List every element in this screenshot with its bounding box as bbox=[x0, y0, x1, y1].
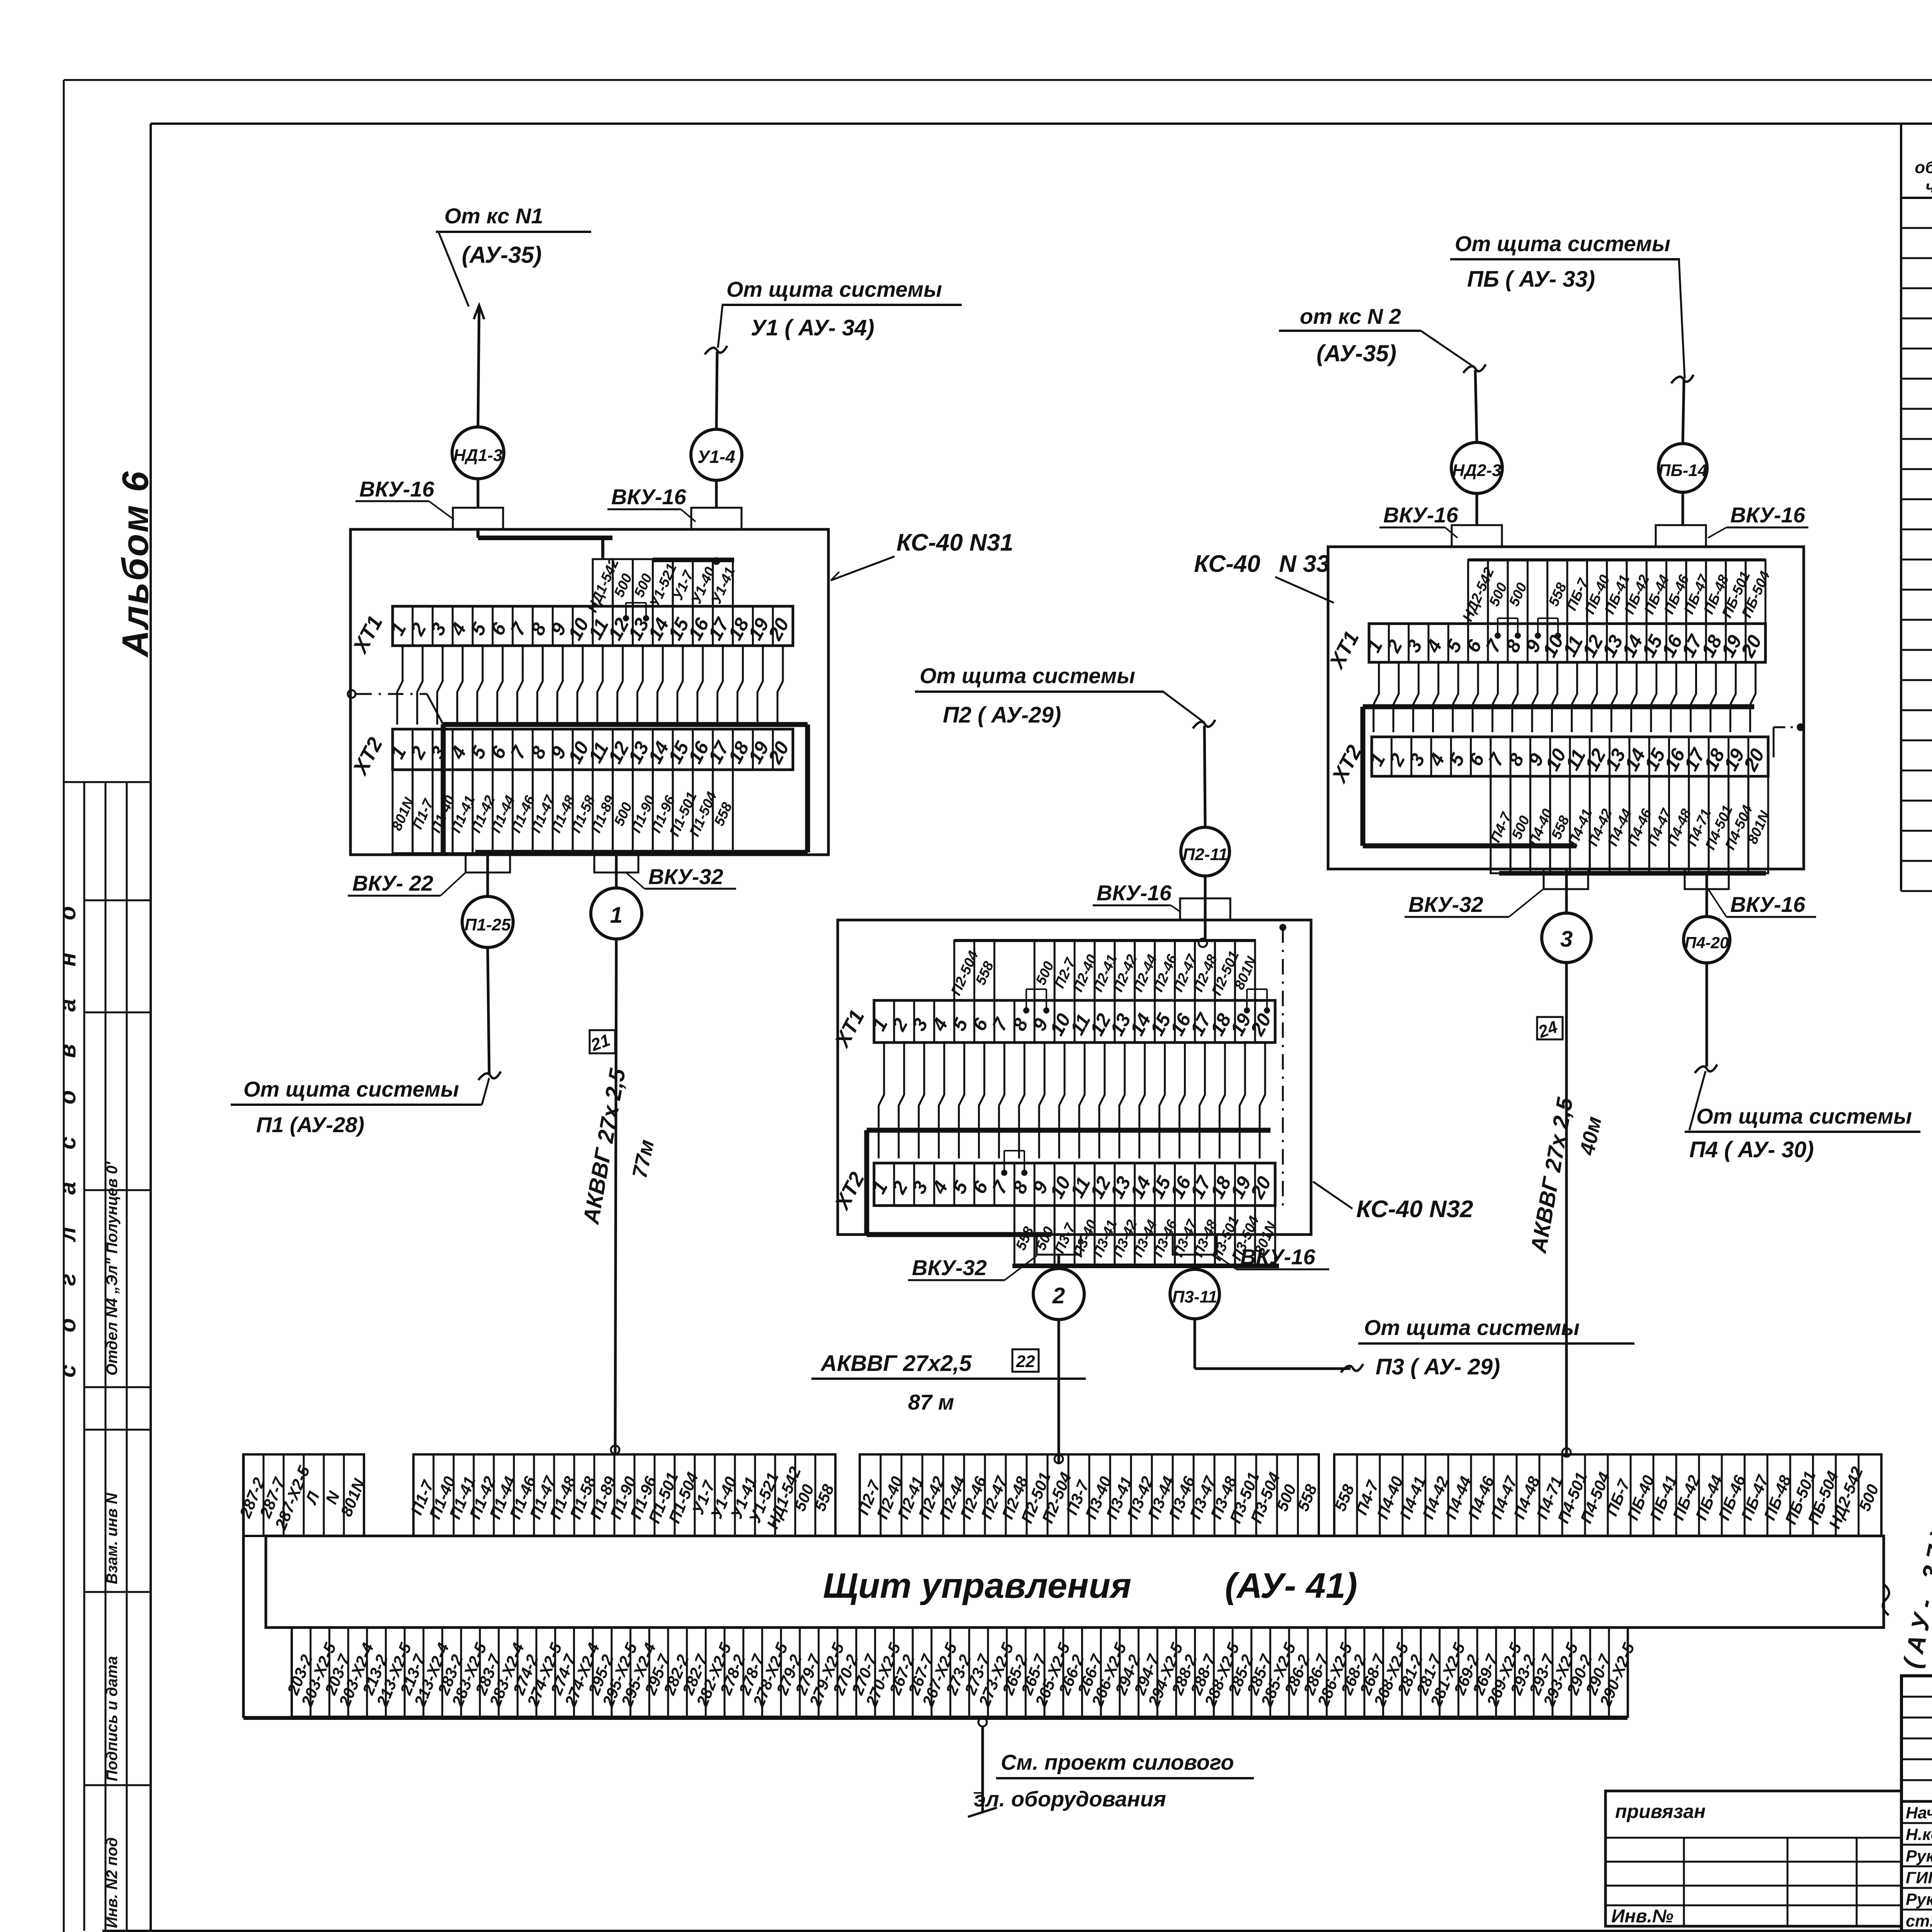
svg-text:Щит управления: Щит управления bbox=[823, 1566, 1131, 1605]
svg-text:ВКУ-16: ВКУ-16 bbox=[1730, 503, 1806, 527]
cable gland ВКУ-22 bottom N31 bbox=[466, 855, 510, 872]
svg-text:От щита системы: От щита системы bbox=[920, 663, 1135, 688]
bridge dots XT2 7-8 N32 bbox=[1001, 1170, 1007, 1176]
svg-text:КС-40 N31: КС-40 N31 bbox=[896, 529, 1014, 556]
svg-text:П4 ( АУ- 30): П4 ( АУ- 30) bbox=[1689, 1137, 1814, 1162]
sheet outer border bbox=[64, 79, 1932, 81]
svg-text:Отдел N4 „Эл" Полунцев 0ʹ: Отдел N4 „Эл" Полунцев 0ʹ bbox=[104, 1161, 121, 1376]
dash-dot stub right N32 bbox=[1279, 924, 1286, 931]
svg-text:эл. оборудования: эл. оборудования bbox=[974, 1787, 1166, 1811]
svg-text:Взам. инв N: Взам. инв N bbox=[104, 1493, 121, 1584]
svg-text:ВКУ-16: ВКУ-16 bbox=[1383, 503, 1459, 527]
terminal strip ХТ1 bbox=[874, 1000, 1275, 1043]
svg-text:(АУ-35): (АУ-35) bbox=[462, 242, 542, 268]
svg-text:НД2-3: НД2-3 bbox=[1452, 461, 1501, 480]
svg-text:ВКУ-16: ВКУ-16 bbox=[611, 485, 687, 509]
svg-text:От щита системы: От щита системы bbox=[243, 1077, 459, 1101]
svg-text:ПБ ( АУ- 33): ПБ ( АУ- 33) bbox=[1467, 267, 1595, 292]
svg-text:Рук.сек.: Рук.сек. bbox=[1906, 1847, 1932, 1866]
svg-text:П2 ( АУ-29): П2 ( АУ-29) bbox=[943, 702, 1061, 728]
svg-text:От щита системы: От щита системы bbox=[726, 277, 942, 301]
left title attachment table bbox=[1605, 1791, 1901, 1926]
bridge dots XT1 8-9 N32 bbox=[1023, 1007, 1029, 1014]
terminal strip ХТ2 bbox=[874, 1163, 1275, 1206]
band terminals lower row bbox=[292, 1628, 1628, 1717]
control panel cabinet outline bbox=[242, 1454, 245, 1718]
dash-dot stub right N33 bbox=[1774, 726, 1799, 728]
svg-text:Рук.гр.: Рук.гр. bbox=[1906, 1890, 1932, 1909]
wire labels above XT1 of N32 bbox=[954, 940, 975, 1000]
svg-text:АКВВГ 27х2,5: АКВВГ 27х2,5 bbox=[820, 1351, 972, 1376]
svg-text:КС-40: КС-40 bbox=[1194, 551, 1260, 577]
cable gland ВКУ-32 bottom N31 bbox=[594, 855, 638, 872]
band terminals group П2-П3 bbox=[860, 1454, 1319, 1536]
svg-text:от кс N 2: от кс N 2 bbox=[1300, 304, 1401, 328]
svg-text:П1-25: П1-25 bbox=[464, 915, 511, 934]
svg-text:Подпись и дата: Подпись и дата bbox=[104, 1656, 121, 1781]
terminal strip ХТ1 bbox=[393, 606, 793, 646]
left margin attachment strip bbox=[64, 781, 151, 783]
circuit У1-4 riser bbox=[691, 429, 742, 480]
label АУ-37 bbox=[1883, 1584, 1889, 1615]
control panel band АУ-41 bbox=[266, 1536, 1884, 1628]
bus from НД1-3 entry bbox=[476, 529, 480, 538]
marker П2-11 riser bbox=[1181, 827, 1230, 876]
svg-text:У1-4: У1-4 bbox=[697, 447, 735, 467]
svg-text:ВКУ-16: ВКУ-16 bbox=[1240, 1245, 1316, 1269]
svg-text:ВКУ-32: ВКУ-32 bbox=[648, 864, 723, 889]
junction box KC-40 N31 bbox=[350, 529, 828, 855]
bridge dots XT1 19-20 N32 bbox=[1244, 1007, 1250, 1014]
svg-text:КС-40 N32: КС-40 N32 bbox=[1356, 1196, 1473, 1223]
cable gland ВКУ-16 top N32 bbox=[1180, 898, 1230, 920]
drawing frame bbox=[151, 122, 1932, 125]
svg-text:(АУ-35): (АУ-35) bbox=[1316, 340, 1396, 366]
svg-text:ст.инж: ст.инж bbox=[1906, 1912, 1932, 1930]
cable run АКВВГ 27х2,5 poz.22 87м bbox=[1058, 1320, 1060, 1463]
circuit ПБ-14 riser bbox=[1658, 444, 1707, 492]
marker 1 (cable1) bbox=[615, 852, 618, 888]
svg-text:ГИП: ГИП bbox=[1906, 1869, 1932, 1887]
svg-text:ВКУ-16: ВКУ-16 bbox=[1097, 881, 1172, 905]
signature rows bbox=[1901, 1822, 1932, 1824]
band terminals group П4-ПБ bbox=[1334, 1454, 1881, 1536]
svg-text:От щита системы: От щита системы bbox=[1455, 231, 1670, 256]
wire labels below XT2 of N32 bbox=[1014, 1206, 1034, 1266]
wire to П4 system panel bbox=[1706, 963, 1708, 1066]
marker П1-25 bbox=[486, 852, 489, 896]
cable gland ВКУ-32 bottom N33 bbox=[1544, 869, 1588, 889]
svg-text:У1 ( АУ- 34): У1 ( АУ- 34) bbox=[751, 315, 874, 340]
wires XT1 to XT2 of N32 bbox=[879, 1043, 884, 1158]
svg-text:N 33: N 33 bbox=[1279, 551, 1330, 577]
cable run АКВВГ 27х2,5 poz.21 77м bbox=[615, 939, 616, 1454]
svg-text:ВКУ- 22: ВКУ- 22 bbox=[352, 871, 433, 895]
svg-text:3: 3 bbox=[1560, 927, 1573, 952]
wire to П3 system panel bbox=[1194, 1319, 1196, 1369]
svg-text:См. проект силового: См. проект силового bbox=[1001, 1750, 1234, 1774]
cable run АКВВГ 27х2,5 poz.24 40м bbox=[1565, 963, 1568, 1457]
wire labels above XT1 of N33 bbox=[1468, 560, 1488, 624]
bus over У1 labels bbox=[653, 558, 734, 562]
terminal strip ХТ2 bbox=[393, 729, 793, 770]
svg-text:ВКУ-32: ВКУ-32 bbox=[912, 1255, 987, 1280]
wire to П1 system panel bbox=[488, 947, 489, 1074]
svg-text:22: 22 bbox=[1016, 1352, 1035, 1371]
svg-text:2: 2 bbox=[1052, 1283, 1065, 1308]
svg-text:Н.контр.: Н.контр. bbox=[1906, 1825, 1932, 1844]
marker П4-20 bbox=[1706, 873, 1708, 917]
svg-text:ВКУ-32: ВКУ-32 bbox=[1408, 892, 1483, 917]
cable gland ВКУ-16 top-left N33 bbox=[1452, 525, 1502, 547]
svg-text:чение: чение bbox=[1925, 177, 1932, 196]
marker 3 (cable3) bbox=[1565, 869, 1568, 913]
title block revision grid bbox=[1901, 1676, 1932, 1931]
internal bus N33 bbox=[1363, 704, 1754, 709]
wire labels below XT2 of N33 bbox=[1491, 776, 1510, 873]
wire labels below XT2 of N31 bbox=[393, 770, 413, 853]
svg-text:ВКУ-16: ВКУ-16 bbox=[1730, 892, 1806, 917]
wires XT1 to XT2 of N31 bbox=[397, 646, 403, 724]
bridge dots XT1 7-8 N33 bbox=[1495, 633, 1501, 639]
junction box KC-40 N32 bbox=[838, 920, 1311, 1235]
terminal strip ХТ1 bbox=[1369, 624, 1765, 662]
svg-text:Инв. N2 под: Инв. N2 под bbox=[104, 1837, 121, 1928]
cable gland ВКУ-16 bottom N33 bbox=[1685, 869, 1729, 889]
marker 2 (cable2) bbox=[1058, 1255, 1060, 1269]
svg-text:ПБ-14: ПБ-14 bbox=[1658, 461, 1707, 480]
band terminals group 287 bbox=[243, 1454, 364, 1536]
svg-text:обозна-: обозна- bbox=[1915, 158, 1932, 177]
svg-text:привязан: привязан bbox=[1615, 1801, 1706, 1822]
dash-dot stub left N31 bbox=[348, 690, 355, 698]
svg-text:П1 (АУ-28): П1 (АУ-28) bbox=[256, 1112, 364, 1137]
svg-text:Нач. отд.: Нач. отд. bbox=[1906, 1804, 1932, 1822]
svg-text:П2-11: П2-11 bbox=[1183, 845, 1228, 864]
cable gland ВКУ-16 top-right N33 bbox=[1656, 525, 1706, 547]
svg-text:П3 ( АУ- 29): П3 ( АУ- 29) bbox=[1376, 1354, 1500, 1379]
svg-text:Инв.№: Инв.№ bbox=[1611, 1906, 1673, 1927]
svg-text:НД1-3: НД1-3 bbox=[453, 446, 502, 465]
bridge dots XT1 12-13 bbox=[623, 615, 629, 621]
marker П3-11 bbox=[1194, 1266, 1196, 1269]
svg-text:П3-11: П3-11 bbox=[1172, 1287, 1217, 1306]
cable gland ВКУ-16 top-right N31 bbox=[691, 508, 742, 529]
cable gland ВКУ-32 bottom N32 bbox=[1037, 1235, 1081, 1255]
bridge dots XT1 9-10 N33 bbox=[1535, 633, 1541, 639]
cable gland ВКУ-16 bottom N32 bbox=[1173, 1235, 1217, 1255]
junction box KC-40 N33 bbox=[1328, 547, 1804, 869]
wires XT1 to XT2 of N33 bbox=[1374, 662, 1379, 732]
band terminals group П1-У1 bbox=[413, 1454, 835, 1536]
wire labels above XT1 of N31 bbox=[593, 559, 613, 606]
components table bbox=[1900, 124, 1902, 891]
cable gland ВКУ-16 top-left N31 bbox=[453, 508, 503, 529]
terminal strip ХТ2 bbox=[1372, 737, 1768, 776]
svg-text:ВКУ-16: ВКУ-16 bbox=[359, 477, 435, 501]
svg-text:(АУ- 41): (АУ- 41) bbox=[1225, 1566, 1357, 1605]
internal bus N31 bbox=[443, 722, 808, 727]
circuit НД2-3 riser bbox=[1451, 442, 1502, 493]
internal bus N32 bbox=[867, 1128, 1270, 1133]
svg-text:87 м: 87 м bbox=[908, 1390, 954, 1414]
wire to power equipment project bbox=[978, 1718, 987, 1726]
svg-text:1: 1 bbox=[610, 903, 622, 928]
svg-text:От кс N1: От кс N1 bbox=[444, 204, 543, 228]
circuit НД1-3 riser bbox=[452, 427, 504, 479]
svg-text:От щита системы: От щита системы bbox=[1696, 1104, 1912, 1128]
svg-text:От щита системы: От щита системы bbox=[1364, 1315, 1580, 1340]
svg-text:П4-20: П4-20 bbox=[1685, 934, 1729, 952]
